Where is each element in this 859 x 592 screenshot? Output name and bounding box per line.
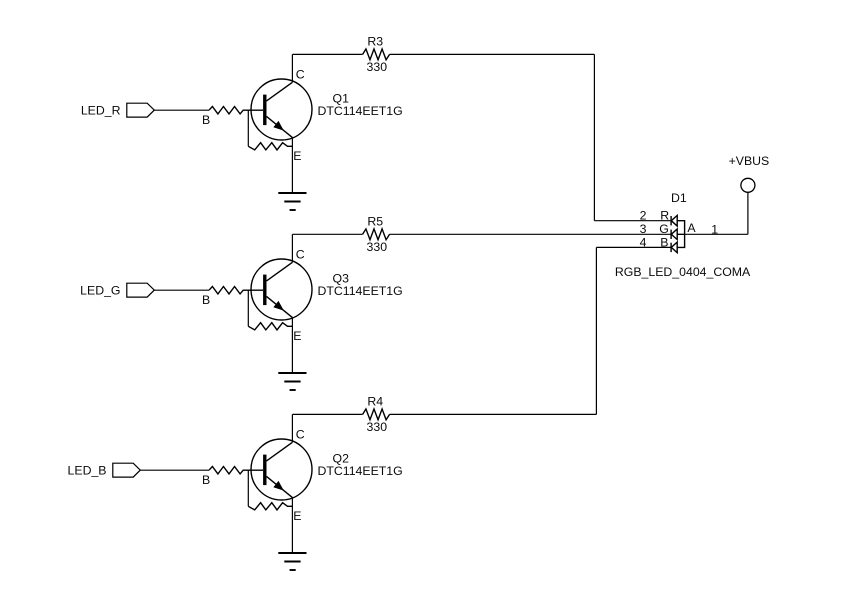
svg-text:B: B bbox=[660, 235, 668, 249]
transistor Q2 bbox=[251, 439, 312, 500]
svg-text:3: 3 bbox=[640, 222, 647, 236]
wire emitter to ground bbox=[291, 498, 293, 553]
transistor Q3 base resistor (internal R of DTC114E) bbox=[209, 287, 263, 294]
transistor Q1 base resistor (internal R of DTC114E) bbox=[209, 107, 263, 114]
svg-text:LED_G: LED_G bbox=[80, 283, 120, 297]
svg-text:DTC114EET1G: DTC114EET1G bbox=[318, 284, 403, 298]
wire collector up bbox=[291, 414, 293, 442]
resistor R3 bbox=[363, 49, 390, 60]
input flag LED_R bbox=[81, 103, 154, 117]
transistor Q2 base-emitter pulldown resistor bbox=[248, 503, 292, 510]
svg-text:A: A bbox=[687, 221, 696, 235]
svg-text:R3: R3 bbox=[367, 34, 383, 48]
svg-text:DTC114EET1G: DTC114EET1G bbox=[318, 104, 403, 118]
input flag LED_G bbox=[80, 283, 154, 297]
wire R5 to LED pin 3 bbox=[390, 233, 671, 235]
wire to LED pin 2 bbox=[594, 220, 671, 222]
transistor Q1 pulldown resistor wire tap bbox=[247, 110, 249, 146]
wire corner down to LED pin 2 bbox=[593, 54, 595, 220]
resistor R5 bbox=[363, 229, 390, 240]
wire collector up bbox=[291, 234, 293, 262]
transistor Q1 bbox=[251, 79, 312, 140]
svg-text:+VBUS: +VBUS bbox=[729, 154, 770, 168]
svg-text:C: C bbox=[296, 67, 305, 81]
LED D1 red element triangle bbox=[671, 215, 677, 226]
svg-text:LED_B: LED_B bbox=[68, 463, 107, 477]
transistor Q3 bbox=[251, 259, 312, 320]
wire emitter to ground bbox=[291, 318, 293, 373]
wire emitter to ground bbox=[291, 138, 293, 193]
ground symbol bbox=[278, 553, 306, 570]
wire collector up bbox=[291, 54, 293, 82]
wire corner up to VBUS bbox=[747, 192, 749, 234]
wire R4 to corner bbox=[390, 413, 597, 415]
wire R3 to corner bbox=[390, 53, 595, 55]
input flag LED_B bbox=[68, 463, 141, 477]
wire to LED pin 4 bbox=[596, 246, 671, 248]
svg-text:B: B bbox=[202, 293, 210, 307]
LED D1 blue element triangle bbox=[671, 242, 677, 253]
svg-text:4: 4 bbox=[640, 235, 647, 249]
wire LED anode to VBUS corner bbox=[685, 233, 748, 235]
svg-text:R: R bbox=[660, 208, 669, 222]
wire corner up to LED pin 4 bbox=[595, 247, 597, 414]
LED D1 blue element cathode bar bbox=[670, 243, 672, 252]
wire flag to base resistor bbox=[140, 469, 209, 471]
LED D1 red element cathode bar bbox=[670, 216, 672, 225]
svg-text:G: G bbox=[659, 222, 669, 236]
svg-text:C: C bbox=[296, 247, 305, 261]
transistor Q2 base resistor (internal R of DTC114E) bbox=[209, 467, 263, 474]
transistor Q1 base-emitter pulldown resistor bbox=[248, 143, 292, 150]
svg-text:R4: R4 bbox=[367, 394, 383, 408]
svg-text:DTC114EET1G: DTC114EET1G bbox=[318, 464, 403, 478]
ground symbol bbox=[278, 193, 306, 210]
svg-text:RGB_LED_0404_COMA: RGB_LED_0404_COMA bbox=[615, 265, 751, 279]
LED D1 green element triangle bbox=[671, 229, 677, 240]
wire flag to base resistor bbox=[154, 109, 209, 111]
resistor R4 bbox=[363, 409, 390, 420]
svg-text:E: E bbox=[293, 329, 301, 343]
wire collector to R4 bbox=[292, 413, 362, 415]
transistor Q3 pulldown resistor wire tap bbox=[247, 290, 249, 326]
svg-text:2: 2 bbox=[640, 208, 647, 222]
svg-text:LED_R: LED_R bbox=[81, 103, 121, 117]
LED D1 green element cathode bar bbox=[670, 230, 672, 239]
svg-text:R5: R5 bbox=[367, 214, 383, 228]
svg-text:D1: D1 bbox=[671, 191, 687, 205]
svg-text:B: B bbox=[202, 113, 210, 127]
svg-text:B: B bbox=[202, 473, 210, 487]
svg-text:E: E bbox=[293, 149, 301, 163]
ground symbol bbox=[278, 373, 306, 390]
LED D1 anode bus bbox=[677, 221, 684, 248]
svg-text:330: 330 bbox=[367, 240, 388, 254]
svg-text:330: 330 bbox=[367, 60, 388, 74]
wire collector to R5 bbox=[292, 233, 362, 235]
transistor Q2 pulldown resistor wire tap bbox=[247, 470, 249, 506]
svg-text:330: 330 bbox=[367, 420, 388, 434]
transistor Q3 base-emitter pulldown resistor bbox=[248, 323, 292, 330]
power symbol +VBUS bbox=[729, 154, 770, 192]
wire flag to base resistor bbox=[154, 289, 209, 291]
svg-text:E: E bbox=[293, 509, 301, 523]
svg-text:C: C bbox=[296, 427, 305, 441]
wire collector to R3 bbox=[292, 53, 362, 55]
